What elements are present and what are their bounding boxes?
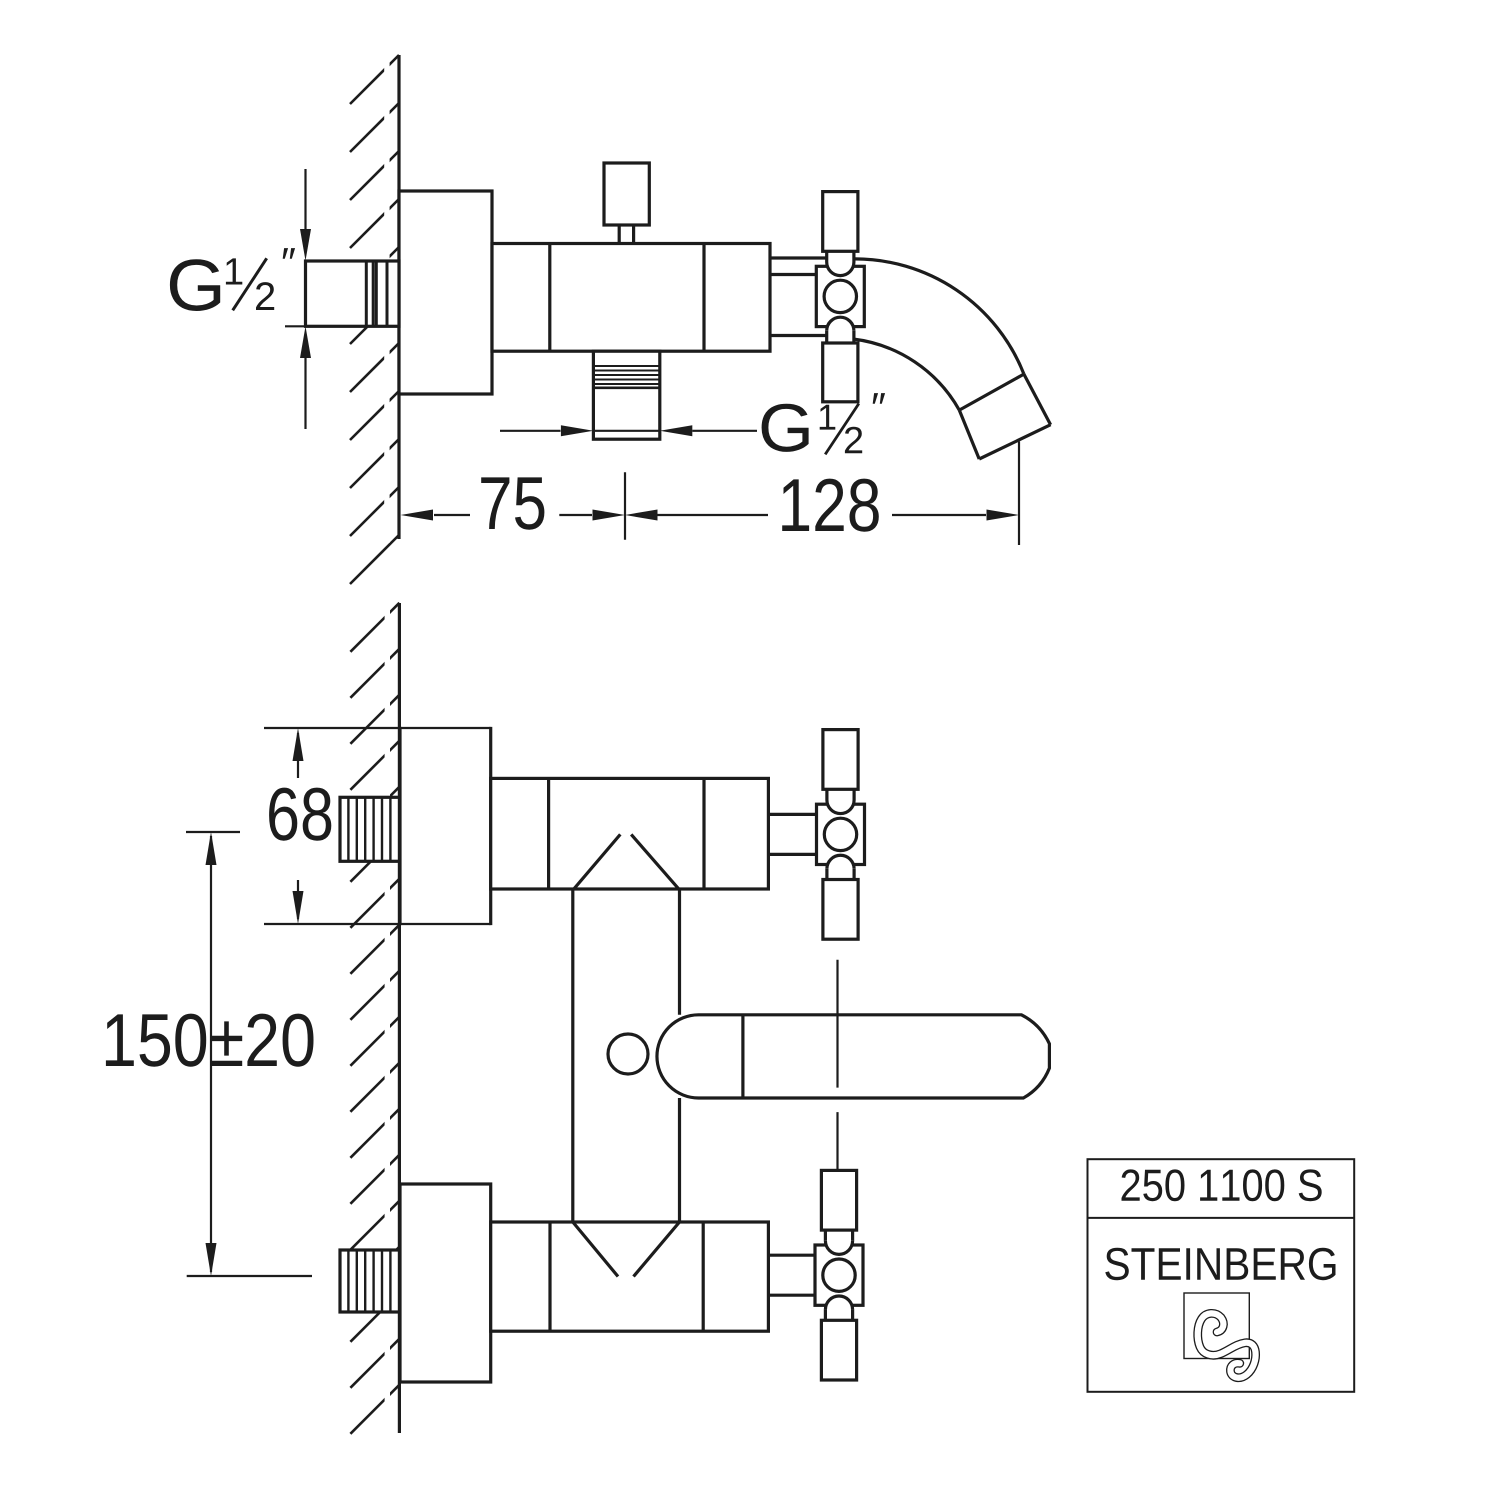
spout inner curve (top view) [853,339,959,410]
lever handle pill (front view) [657,1015,1049,1098]
label 150 plus-minus 20 [106,1014,314,1067]
valve centerline (front view) [836,960,838,1088]
cross handle bottom bar [823,343,858,402]
knob stem [618,225,621,244]
bottom valve upper dome [825,1241,852,1255]
top valve upper dome [827,800,854,814]
top wall thread (front view) [340,797,399,861]
bottom wall thread (front view) [340,1250,399,1312]
128 extension line at spout tip [1018,442,1020,546]
body section line 1 (top view) [548,244,551,352]
wall hatching (front view) [350,603,399,1434]
wall nipple G1/2 (top view) [306,261,400,326]
wall line (top view) [397,55,400,539]
spout outer straight (top view) [1024,374,1051,425]
G1/2 dimension line (top view left) [304,169,306,232]
label G1/2 denominator 2 (outlet) [845,427,862,454]
label G1/2 denominator 2 (nipple) [256,282,274,310]
top valve upper neck [825,789,828,800]
spout outer curve (top view) [853,259,1024,374]
top valve circle [824,818,856,850]
bottom body section line 1 (front view) [548,1222,551,1331]
lower dome [827,317,854,331]
bottom valve feed pipe (front view) [768,1254,815,1257]
bottom valve handle lower bar [821,1320,856,1380]
top valve lower neck [825,869,828,880]
top valve feed pipe (front view) [768,813,816,816]
top body (front view) [491,778,769,889]
G1/2 bottom tick [285,325,306,327]
top valve square body [817,804,865,864]
steinberg logo square [1184,1293,1249,1359]
pill inner line [741,1015,744,1098]
label G1/2 inch marks (nipple) [283,248,295,259]
top escutcheon (front view) [400,728,491,924]
body section line 2 (top view) [702,244,705,352]
top valve handle upper bar [823,730,858,790]
outlet thread lines [593,366,659,384]
wall hatch gap band (front view) [385,598,390,1438]
label G1/2 numerator 1 (nipple) [226,258,242,284]
top body section line 2 (front view) [702,778,705,889]
spout pipe top line (top view) [770,256,827,259]
wall line (front view) [398,603,401,1433]
spout inner straight (top view) [959,410,979,459]
label G1/2 G (outlet) [762,404,809,452]
label G1/2 inch marks (outlet) [873,393,885,404]
150+-20 dimension [186,831,240,833]
valve square [816,266,864,326]
valve feed pipe line (top view) [770,273,816,276]
escutcheon (top view) [399,191,492,394]
label 250 1100 S [1122,1169,1322,1201]
valve circle [824,280,856,312]
body (top view) [492,244,770,352]
steinberg logo S-curl [1198,1313,1256,1377]
75 dimension [434,514,470,516]
label G1/2 G (nipple) [170,259,220,311]
valve assembly (top view) [816,192,864,402]
bottom body (front view) [491,1222,769,1331]
label G1/2 fraction slash (outlet) [825,404,859,455]
wall hatching (top view) [350,55,399,584]
bottom valve handle upper bar [821,1170,856,1230]
upper neck [825,251,828,262]
bottom valve assembly (front view) [815,1170,863,1380]
top chevron [574,834,621,889]
label 68 [269,788,331,841]
spout pipe bottom line (top view) [770,334,827,337]
top valve handle lower bar [823,880,858,940]
label G1/2 numerator 1 (outlet) [820,405,836,430]
nipple thread lines [366,261,387,326]
75/128 shared extension line [624,472,626,539]
bottom valve lower dome [825,1296,852,1310]
bottom valve upper neck [824,1230,827,1241]
top valve lower dome [827,855,854,869]
spout end face (top view) [979,425,1050,459]
bottom valve square body [815,1245,863,1305]
label 75 [481,477,544,529]
G1/2 outlet dimension [500,430,561,432]
label G1/2 fraction slash (nipple) [233,258,267,310]
cross handle top bar [823,192,858,252]
central column left line [571,889,574,1222]
bottom body section line 2 (front view) [702,1222,705,1331]
128 dimension [625,510,658,521]
wall hatch gap band (top view) [384,50,389,543]
label STEINBERG [1105,1248,1335,1281]
upper dome [827,262,854,276]
lower neck [825,331,828,343]
bottom valve circle [823,1259,855,1291]
bottom escutcheon (front view) [400,1184,491,1382]
TEXT LAYER [106,248,885,1067]
bottom chevron [573,1222,618,1277]
top body section line 1 (front view) [547,778,550,889]
bottom valve lower neck [824,1310,827,1321]
spout joint line (top view) [959,374,1024,410]
DIMENSIONS LAYER [186,169,1019,1276]
logo box divider [1088,1217,1355,1219]
logo box frame [1088,1159,1355,1392]
label 128 [782,479,879,532]
diverter circle (front view) [608,1034,648,1074]
hand shower outlet (top view) [593,351,659,439]
top valve assembly (front view) [817,730,865,940]
central column right line lower [678,1098,681,1222]
mixer knob (top view) [604,163,649,225]
68 dimension [264,727,400,729]
central column right line upper [678,889,681,1015]
